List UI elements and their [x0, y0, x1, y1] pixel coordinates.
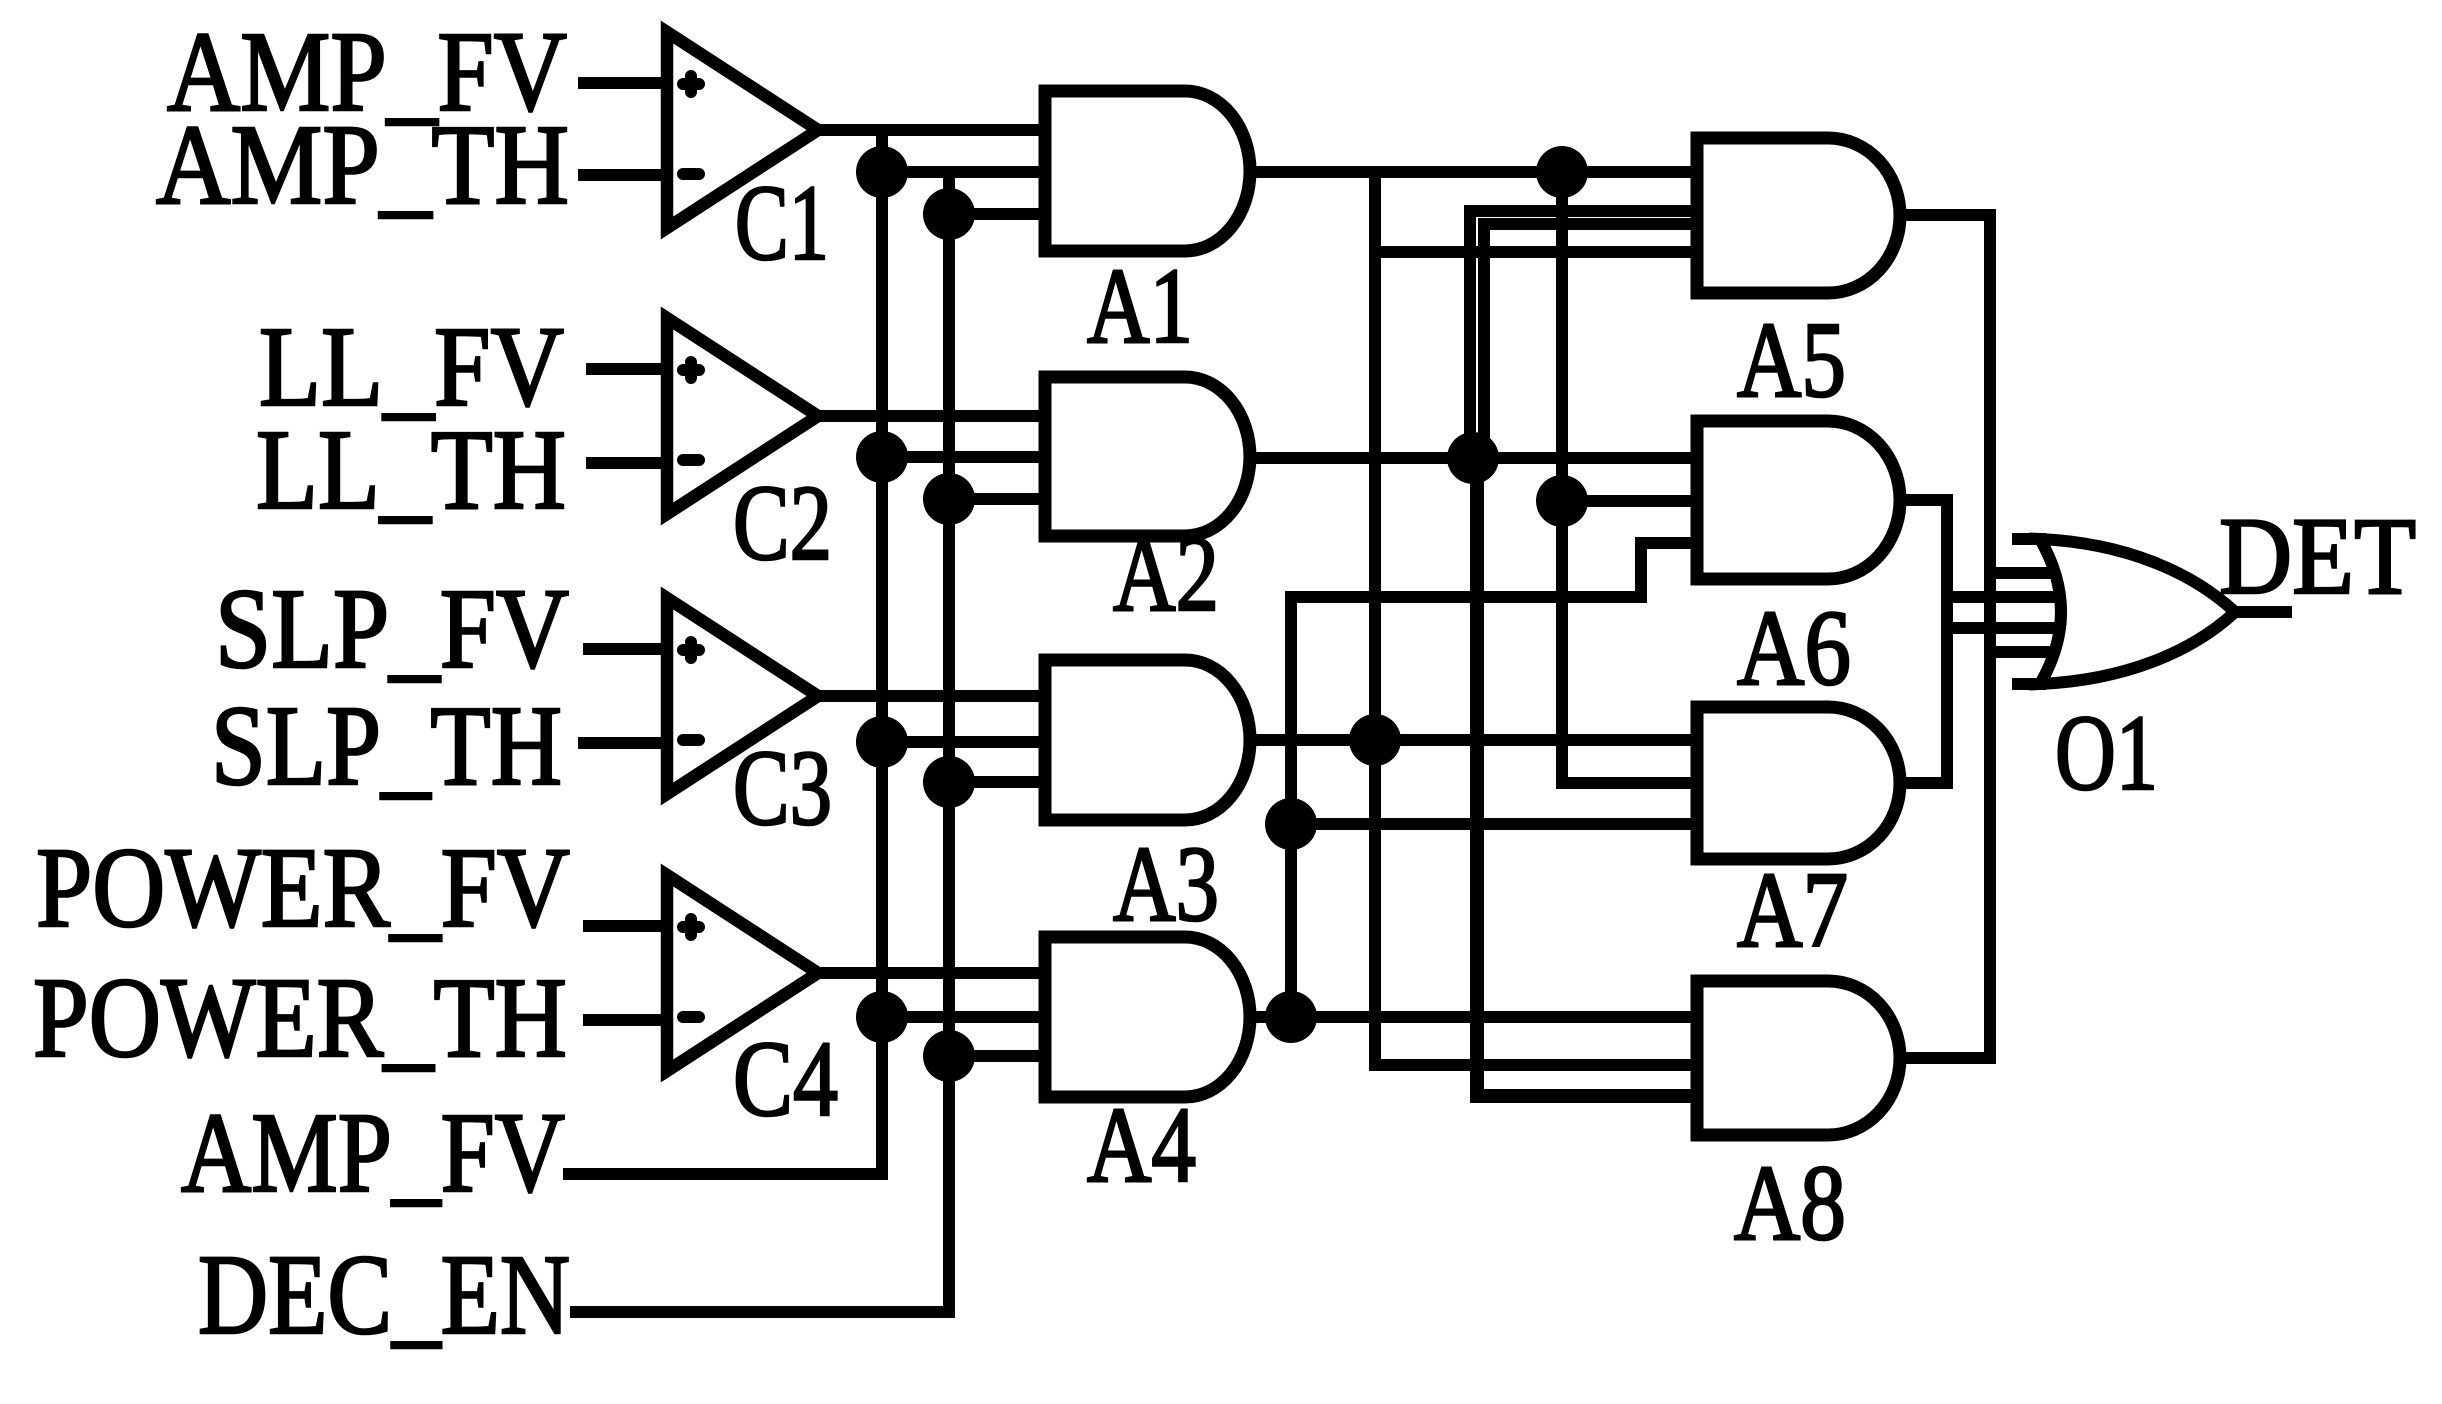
AND gate A2 [1045, 377, 1250, 536]
svg-text:A3: A3 [1113, 825, 1219, 944]
wire SLP_TH to C3 - input [578, 737, 668, 749]
wire vpair inner elbow to A5 input 2 [1484, 224, 1710, 458]
svg-text:SLP_FV: SLP_FV [215, 565, 569, 692]
wire A1 output to A5 input 1 [1250, 166, 1710, 178]
wire riser branch to O1 input 3 [1947, 622, 2075, 634]
wire C1 output to A1 input 1 [818, 124, 1055, 136]
node bus2-A4 junction [923, 1030, 975, 1082]
wire C2 output to A2 input 1 [816, 410, 1055, 422]
wire AMP_FV to C1 + input [578, 77, 668, 89]
wire A6 output riser to A7 output [1900, 500, 1947, 783]
svg-text:DEC_EN: DEC_EN [198, 1231, 570, 1358]
svg-text:C2: C2 [733, 464, 832, 583]
wire v1 branch to A5 input 3 [1375, 246, 1710, 258]
node bus2-A1 junction [923, 188, 975, 240]
node bus1-A3 junction [856, 716, 908, 768]
wire LL_FV to C2 + input [586, 363, 668, 375]
svg-text:DET: DET [2219, 495, 2416, 617]
AND gate A1 [1045, 91, 1250, 251]
wire A5 output riser to A8 output [1900, 215, 1990, 1058]
wire bus2 branch to A2 input 3 [949, 493, 1055, 505]
wire LL_TH to C2 - input [586, 457, 668, 469]
wire riser branch to O1 input 1 [1990, 567, 2075, 579]
wire POWER_FV to C4 + input [583, 920, 668, 932]
svg-text:A5: A5 [1737, 301, 1846, 420]
wire O1 output DET [2235, 606, 2292, 618]
comparator C3 [667, 598, 818, 794]
wire bus2 branch to A3 input 3 [949, 776, 1055, 788]
wire va branch to A7 input 3 [1291, 818, 1707, 830]
wire bus1 branch to A1 input 2 [882, 166, 1055, 178]
wire C3 output to A3 input 1 [819, 690, 1055, 702]
svg-text:A1: A1 [1087, 247, 1193, 366]
wire DEC_EN feed and bus2 vertical [570, 172, 949, 1312]
wire vd branch to A6 input 2 [1562, 495, 1710, 507]
wire SLP_FV to C3 + input [583, 643, 668, 655]
svg-text:AMP_FV: AMP_FV [181, 1089, 565, 1216]
node A3 output junction [1349, 714, 1401, 766]
node vd-A6 junction [1536, 475, 1588, 527]
wire AMP_FV feed and bus1 vertical [563, 130, 882, 1174]
wire POWER_TH to C4 - input [583, 1014, 668, 1026]
svg-text:C4: C4 [733, 1020, 838, 1139]
wire A2 output to A6 input 1 [1250, 452, 1710, 464]
wire bus1 branch to A4 input 2 [882, 1011, 1055, 1023]
wire bus1 branch to A2 input 2 [882, 451, 1055, 463]
wire bus2 branch to A4 input 3 [949, 1050, 1055, 1062]
comparator C2 [667, 318, 818, 514]
svg-text:A8: A8 [1734, 1144, 1846, 1263]
svg-text:A4: A4 [1087, 1086, 1196, 1205]
svg-text:AMP_TH: AMP_TH [156, 101, 569, 228]
node A4 output junction [1265, 991, 1317, 1043]
AND gate A7 [1697, 707, 1900, 859]
node bus2-A3 junction [923, 756, 975, 808]
svg-text:A2: A2 [1113, 515, 1219, 634]
svg-text:LL_TH: LL_TH [256, 406, 566, 533]
svg-text:C3: C3 [733, 729, 832, 848]
wire riser branch to O1 input 4 [1990, 646, 2075, 658]
node bus2-A2 junction [923, 473, 975, 525]
svg-text:A7: A7 [1737, 851, 1848, 970]
AND gate A5 [1697, 138, 1900, 293]
comparator C1 [667, 32, 818, 228]
wire riser branch to O1 input 2 [1947, 591, 2075, 603]
svg-text:POWER_TH: POWER_TH [33, 954, 567, 1081]
wire vd vertical and elbow to A7 input 2 [1562, 172, 1707, 783]
comparator C4 [667, 875, 818, 1071]
wire vpair lower vertical to A8 input 3 [1477, 452, 1702, 1096]
AND gate A8 [1697, 981, 1900, 1135]
OR gate O1 [2040, 539, 2235, 684]
node A2 output junction [1447, 432, 1499, 484]
svg-text:C1: C1 [735, 164, 829, 283]
AND gate A6 [1697, 421, 1900, 579]
svg-text:POWER_FV: POWER_FV [36, 824, 570, 951]
wire AMP_TH to C1 - input [578, 169, 668, 181]
svg-text:SLP_TH: SLP_TH [211, 682, 562, 809]
node bus1-A4 junction [856, 991, 908, 1043]
wire v1 vertical and elbow to A8 input 2 [1375, 166, 1702, 1065]
wire va riser and step to A6 input 3 [1291, 543, 1710, 1017]
AND gate A3 [1045, 660, 1250, 820]
wire vpair outer elbow to A5 input 2 [1470, 211, 1710, 458]
svg-text:O1: O1 [2055, 694, 2158, 813]
wire A4 output to A8 input 1 [1250, 1011, 1702, 1023]
svg-text:A6: A6 [1737, 589, 1851, 708]
node va-A7 junction [1265, 798, 1317, 850]
node bus1-A1 junction [856, 146, 908, 198]
wire bus1 branch to A3 input 2 [882, 736, 1055, 748]
wire C4 output to A4 input 1 [821, 967, 1055, 979]
wire bus2 branch to A1 input 3 [949, 208, 1055, 220]
AND gate A4 [1045, 937, 1250, 1097]
node bus1-A2 junction [856, 431, 908, 483]
wire A3 output to A7 input 1 [1250, 734, 1707, 746]
node A1 output junction [1536, 146, 1588, 198]
